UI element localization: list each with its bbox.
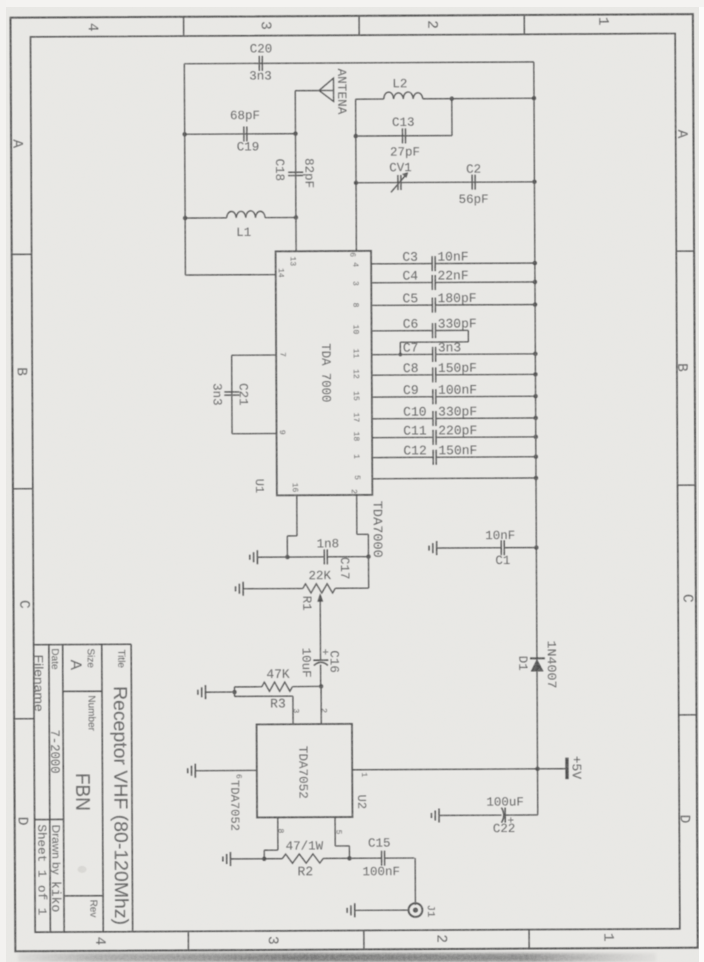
ground (R2 row) xyxy=(223,852,231,866)
label C1 xyxy=(495,554,510,568)
pin 2 label (U1 bottom) xyxy=(349,489,358,494)
pin 12 label xyxy=(351,369,360,379)
capacitor C1 xyxy=(501,540,504,555)
inductor L2 xyxy=(384,92,423,99)
capacitor C19 xyxy=(244,126,247,141)
wire R3 ground row xyxy=(205,691,234,693)
node C13 left xyxy=(354,134,358,138)
capacitor C13 xyxy=(402,128,405,143)
pin 1 label (U2) xyxy=(359,772,368,777)
label L2 xyxy=(392,77,407,91)
node L1 right xyxy=(294,215,298,219)
wire U2 pin8 route xyxy=(264,817,278,858)
wire top rail xyxy=(184,62,533,64)
label C19 xyxy=(237,140,260,154)
label 1N4007 (D1) xyxy=(544,640,558,688)
wire C13 row xyxy=(356,135,452,138)
label TDA 7000 (U1) xyxy=(318,343,333,402)
resistor R1 22K xyxy=(303,584,335,593)
wire pin7 row xyxy=(232,354,276,356)
power +5V terminal xyxy=(565,758,568,779)
pin 5 label xyxy=(352,475,361,480)
node bus +5V row xyxy=(535,767,539,771)
wire U2 pin5 route xyxy=(335,817,349,858)
title block label Date xyxy=(49,648,60,670)
pin 8 label xyxy=(350,303,359,308)
label 82pF (C18) xyxy=(301,158,315,188)
label C5 xyxy=(403,291,419,306)
label 56pF (C2) xyxy=(459,193,489,207)
scan edge: right white strip xyxy=(699,0,704,962)
label C8 xyxy=(403,361,419,376)
node bus C1 row xyxy=(534,545,538,549)
ground (R3 row) xyxy=(198,685,206,699)
pin 17 label xyxy=(351,413,360,423)
op-amp U1 TDA7000 body xyxy=(276,251,373,495)
label D1 xyxy=(515,656,529,671)
node pin2-C17 xyxy=(366,554,370,558)
node CV1 left xyxy=(354,181,358,185)
label 22K (R1) xyxy=(308,569,331,583)
title block label Sheet 1 of 1 xyxy=(34,824,48,915)
wire tuner vertical xyxy=(355,99,358,251)
node pin16-C17 xyxy=(285,555,289,559)
pin 6 label (U2) xyxy=(234,774,243,779)
label C6 xyxy=(403,317,419,332)
label C16 xyxy=(327,650,341,673)
wire C16 to junction xyxy=(320,665,322,687)
label 150pF (C8) xyxy=(438,361,477,376)
wire pin5 row xyxy=(372,476,538,481)
node C19 right xyxy=(293,131,297,135)
wire R2 row xyxy=(230,857,414,860)
ground (C1 row) xyxy=(429,541,437,555)
ground (U2 pin6) xyxy=(188,764,196,778)
capacitor C17 xyxy=(324,549,327,564)
pin 15 label xyxy=(351,391,360,401)
capacitor C22 electrolytic xyxy=(501,808,514,828)
wire R3 fork vertical xyxy=(233,687,235,696)
capacitor C2 xyxy=(472,175,475,190)
label C13 xyxy=(392,116,415,130)
title block label Filename xyxy=(32,655,46,712)
label TDA7052 (U2) xyxy=(295,746,309,799)
amplifier U2 TDA7052 body xyxy=(257,724,353,818)
label C9 xyxy=(403,383,419,398)
label ANTENA xyxy=(334,68,348,115)
capacitor C5 row wire xyxy=(371,297,537,313)
pin 18 label xyxy=(351,432,360,442)
pin 7 label xyxy=(278,352,287,357)
pin 9 label xyxy=(277,430,286,435)
label C17 xyxy=(337,557,351,580)
node C16-R3 junction xyxy=(319,684,323,688)
pin 1 label xyxy=(351,454,360,459)
wire pin14 row xyxy=(185,274,275,276)
wire right bus vertical xyxy=(534,62,538,815)
wire left tank vertical xyxy=(184,64,185,275)
wire pin9 row xyxy=(232,432,276,434)
wire C17 row xyxy=(257,556,368,559)
label C22 xyxy=(493,822,516,836)
label 27pF (C13) xyxy=(390,145,420,159)
variable capacitor CV1 xyxy=(391,172,408,192)
label 10nF (C3) xyxy=(437,249,468,264)
node C6-C7 junction xyxy=(399,353,403,357)
wire antenna vertical xyxy=(294,91,297,252)
resistor R2 47/1W xyxy=(282,854,323,863)
capacitor C20 xyxy=(259,56,262,71)
wire CV1 row xyxy=(356,181,534,184)
wire pin6 row xyxy=(195,769,256,771)
pin 3 label (U2) xyxy=(291,708,300,713)
resistor R3 47K xyxy=(262,682,293,691)
wire pin16 jog xyxy=(287,495,297,557)
pin 2 label (U2) xyxy=(319,708,328,713)
node R2 right xyxy=(347,856,351,860)
label 3n3 (C20) xyxy=(249,69,272,83)
label C3 xyxy=(402,250,418,265)
node L1 left xyxy=(183,216,187,220)
wire pin1 row +5V rail xyxy=(352,769,567,770)
label C11 xyxy=(403,423,427,438)
title block value A xyxy=(67,660,84,671)
label 150nF (C12) xyxy=(438,443,477,458)
pin 6 label xyxy=(347,252,356,257)
wire pin3 route xyxy=(235,696,294,724)
label +5V xyxy=(569,756,584,780)
label C12 xyxy=(403,443,426,458)
pin 4 label xyxy=(350,262,359,267)
title block value FBN xyxy=(71,773,93,811)
wire pin2 jog xyxy=(357,495,369,588)
pin 13 label xyxy=(288,256,297,266)
diode D1 1N4007 xyxy=(530,658,545,671)
label 68pF (C19) xyxy=(230,109,260,123)
wire R1 row xyxy=(243,587,368,590)
wire C22 row xyxy=(439,814,538,817)
label 180pF (C5) xyxy=(438,291,477,306)
label 100nF (C9) xyxy=(438,383,477,398)
capacitor C18 xyxy=(288,172,303,175)
wire C1 row xyxy=(437,547,537,550)
node bus CV1 row xyxy=(532,180,536,184)
label C20 xyxy=(250,42,273,56)
pin 3 label xyxy=(350,281,359,286)
capacitor C16 electrolytic xyxy=(313,648,329,666)
title block value kiko xyxy=(48,881,63,912)
wire L2 row xyxy=(356,97,534,100)
capacitor C21 xyxy=(224,392,239,395)
label U1 xyxy=(252,479,266,493)
ground (R1 row) xyxy=(236,582,244,596)
wire C19 row xyxy=(185,133,296,136)
antenna symbol xyxy=(319,78,334,101)
title text Receptor VHF (80-120Mhz) xyxy=(109,686,131,925)
label 3n3 (C7) xyxy=(438,340,461,355)
wire pin2 stub (U2) xyxy=(320,686,322,724)
label R1 xyxy=(299,596,313,611)
label 330pF (C10) xyxy=(438,404,477,419)
wire C21 vertical xyxy=(231,355,233,433)
wire J1 row xyxy=(355,909,409,911)
label 100uF (C22) xyxy=(486,795,524,809)
capacitor C8 row wire xyxy=(372,367,538,383)
pin 8 label (U2) xyxy=(276,828,285,833)
wire R3 upper row xyxy=(234,685,320,688)
ground (J1) xyxy=(347,903,355,917)
inductor L1 xyxy=(227,211,266,218)
capacitor C11 row wire xyxy=(372,429,538,445)
connector J1 xyxy=(409,903,423,917)
title block label Rev xyxy=(87,900,98,918)
capacitor C3 row wire xyxy=(371,256,537,272)
pin 5 label (U2) xyxy=(334,830,343,835)
label 220pF (C11) xyxy=(438,423,477,438)
title block label Drawn by xyxy=(49,825,61,876)
label C4 xyxy=(402,269,418,284)
title block label Number xyxy=(85,695,96,731)
pin 11 label xyxy=(351,349,360,359)
capacitor C15 xyxy=(382,851,385,866)
label TDA7000 part xyxy=(370,501,385,558)
title block grid xyxy=(34,644,133,932)
title block label Size xyxy=(85,648,96,668)
label R2 xyxy=(297,864,313,879)
label 10nF (C1) xyxy=(485,529,515,543)
capacitor C4 row wire xyxy=(371,274,537,290)
label C15 xyxy=(368,837,391,851)
label U2 xyxy=(354,795,368,809)
scan edge: bottom dark band xyxy=(18,953,656,962)
capacitor C12 row wire xyxy=(372,449,538,465)
label J1 xyxy=(424,905,436,918)
ground (C17 row) xyxy=(250,550,258,564)
wire L1 row xyxy=(185,216,296,219)
capacitor C6 row wire xyxy=(371,323,468,355)
label C18 xyxy=(272,159,286,182)
wire C15 to J1 xyxy=(414,858,416,905)
label C10 xyxy=(403,405,426,420)
label 10uF (C16) xyxy=(299,648,313,678)
node C19 left xyxy=(182,132,186,136)
node bus L2 row xyxy=(532,96,536,100)
capacitor C10 row wire xyxy=(372,410,538,426)
smudge artifact xyxy=(78,866,87,873)
potentiometer wiper arrow xyxy=(317,593,323,660)
pin 16 label xyxy=(290,483,299,493)
capacitor C9 row wire xyxy=(372,389,538,405)
label TDA7052 part xyxy=(227,780,241,831)
label 47/1W (R2) xyxy=(286,839,324,853)
label R3 xyxy=(270,696,286,711)
label 3n3 (C21) xyxy=(209,383,223,406)
label 1n8 (C17) xyxy=(317,537,340,551)
label 330pF (C6) xyxy=(438,316,477,331)
node L2-C13 junction xyxy=(450,96,454,100)
label 22nF (C4) xyxy=(437,268,468,283)
label 47K (R3) xyxy=(266,667,290,682)
label C7 xyxy=(403,340,419,355)
label CV1 xyxy=(389,161,412,175)
pin 10 label xyxy=(351,325,360,335)
wire antenna stub xyxy=(295,90,319,92)
ground (C22 row) xyxy=(431,808,439,822)
capacitor C7 row wire xyxy=(372,346,538,362)
label C21 xyxy=(236,383,250,406)
title block label Title xyxy=(115,649,126,668)
label L1 xyxy=(236,226,251,240)
pin 14 label xyxy=(276,268,285,278)
wire C13 vertical link xyxy=(451,99,453,136)
label 100nF (C15) xyxy=(362,865,400,879)
node R3 fork xyxy=(232,690,236,694)
node R2 left xyxy=(262,857,266,861)
title block value 7-2000 xyxy=(47,730,62,774)
label C2 xyxy=(466,163,481,177)
